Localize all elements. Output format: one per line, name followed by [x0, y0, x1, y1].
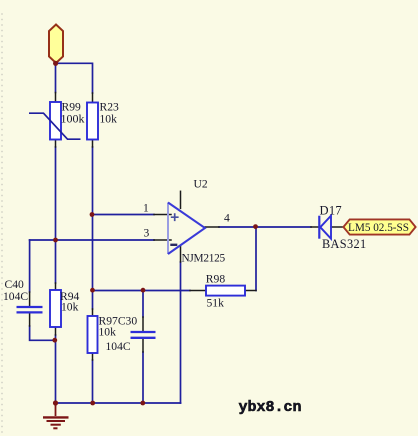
svg-text:10k: 10k	[100, 113, 118, 126]
svg-text:104C: 104C	[3, 290, 28, 303]
svg-text:10k: 10k	[99, 326, 117, 339]
svg-text:ybx8.cn: ybx8.cn	[239, 399, 302, 416]
svg-text:LM5 02.5-SS: LM5 02.5-SS	[348, 222, 409, 234]
svg-text:1: 1	[143, 202, 149, 215]
svg-text:BAS321: BAS321	[322, 237, 366, 251]
svg-text:3: 3	[144, 227, 150, 240]
svg-text:100k: 100k	[61, 112, 85, 126]
svg-text:NJM2125: NJM2125	[182, 253, 226, 265]
svg-text:4: 4	[224, 212, 230, 225]
svg-text:D17: D17	[320, 204, 342, 218]
svg-text:R98: R98	[206, 273, 226, 286]
svg-text:104C: 104C	[106, 340, 131, 353]
svg-text:10k: 10k	[61, 301, 79, 314]
svg-text:U2: U2	[194, 178, 208, 191]
svg-text:51k: 51k	[207, 296, 225, 309]
